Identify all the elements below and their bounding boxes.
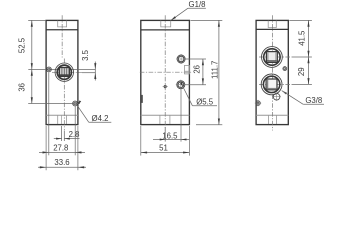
right view cap bottom line xyxy=(256,28,288,30)
right view vertical centerline xyxy=(271,15,273,130)
dim line 26 xyxy=(202,59,204,85)
G1/8 underline xyxy=(188,7,206,9)
middle view base notch xyxy=(160,115,170,124)
dim line 2.8 xyxy=(54,138,62,140)
port circle P left view thread ring xyxy=(57,65,71,79)
arrow 51 left xyxy=(141,151,147,153)
mirrored hole cross ticks xyxy=(272,96,281,98)
small hole left edge bottom xyxy=(256,101,261,106)
port P2 outer circle xyxy=(261,74,282,95)
svg-text:27.8: 27.8 xyxy=(53,143,68,152)
arrow 3.5 upper (outside) xyxy=(94,63,96,69)
right view base notch xyxy=(269,115,277,124)
middle view small center mark xyxy=(164,86,166,88)
ext line body left xyxy=(45,126,47,170)
ext line mid right xyxy=(188,126,190,156)
leader line G3/8 xyxy=(282,91,304,105)
port P1 square bottom band xyxy=(267,60,277,62)
arrow 33.6 left (outside) xyxy=(40,166,46,168)
left view base notch xyxy=(58,115,67,124)
G1/8 leader arrow xyxy=(171,16,176,20)
arrow 2.8 left (outside) xyxy=(56,138,62,140)
dim line 16.5 xyxy=(153,139,189,141)
port P1 square left band xyxy=(267,52,269,61)
dim line 52.5/36 xyxy=(31,20,33,103)
ext line top right view xyxy=(289,19,312,21)
port P1 square right shade xyxy=(275,52,277,61)
arrow 41.5 bottom xyxy=(307,51,309,57)
svg-text:G3/8: G3/8 xyxy=(305,96,322,105)
pilot hole lower cross ticks xyxy=(176,84,186,86)
middle view base strip top line xyxy=(141,114,190,116)
left view base strip top line xyxy=(46,114,78,116)
ext line 26 top xyxy=(185,58,206,60)
right view cap top notch xyxy=(268,21,276,28)
svg-text:51: 51 xyxy=(159,143,168,152)
arrow 29 bottom xyxy=(307,78,309,84)
middle view body outline xyxy=(141,20,190,124)
ext line top left xyxy=(28,19,46,21)
mounting hole lower-right diam 4.2 xyxy=(73,101,78,106)
svg-text:26: 26 xyxy=(193,65,202,74)
dim line 41.5/29 xyxy=(308,20,310,84)
ext line P2 right xyxy=(292,83,312,85)
arrow 3.5 lower (outside) xyxy=(94,73,96,79)
ext line 26 bottom xyxy=(185,84,207,86)
dim line 27.8 xyxy=(39,151,85,153)
mirrored hole 4.2 with cross xyxy=(273,93,280,100)
port square hatch lines xyxy=(61,68,63,74)
arrow 26 bottom xyxy=(202,78,204,84)
svg-text:41.5: 41.5 xyxy=(298,30,307,46)
ext line hole2 xyxy=(74,106,76,155)
dim line 51 xyxy=(141,152,190,154)
arrow 2.8 right (outside) xyxy=(64,138,70,140)
port P2 inner square xyxy=(266,79,277,90)
port circle P left view outer xyxy=(55,63,73,81)
middle view tab mid line xyxy=(185,70,190,72)
left view base notch inner line xyxy=(61,115,63,124)
port P2 thread ring xyxy=(263,76,279,92)
left view centerline main (port axis) xyxy=(63,59,65,131)
mounting hole upper-left (2.8 offset) xyxy=(47,67,52,72)
leader arrow 4.2 xyxy=(77,100,81,105)
ext line bottom 111.7 xyxy=(196,124,222,126)
arrow 36 top xyxy=(31,69,33,75)
leader line 4.2 xyxy=(77,105,89,122)
ext line hole1 xyxy=(48,72,50,155)
arrow 16.5 right (outside) xyxy=(181,139,187,141)
right view base strip top line xyxy=(256,114,288,116)
middle view right edge port tab xyxy=(185,65,190,74)
arrow 51 right xyxy=(183,151,189,153)
arrow 111.7 top xyxy=(218,20,220,26)
port P2 horizontal centerline xyxy=(259,83,292,85)
arrow 52.5 top xyxy=(31,20,33,26)
dim line 111.7 xyxy=(218,20,220,124)
port circle P left view inner square xyxy=(59,68,69,77)
middle view cap bottom line xyxy=(141,29,190,31)
ext line 103.5 left xyxy=(28,103,65,105)
ext line body right xyxy=(77,126,79,170)
arrow 16.5 left (outside) xyxy=(160,139,166,141)
port P2 square bottom shade xyxy=(267,87,277,89)
svg-text:Ø4.2: Ø4.2 xyxy=(92,114,109,123)
small hole right edge xyxy=(283,67,287,71)
left view port horizontal centerline xyxy=(52,72,82,74)
leader arrow G3/8 xyxy=(282,91,287,95)
left view cap bottom line xyxy=(46,29,78,31)
svg-text:36: 36 xyxy=(18,83,27,92)
svg-text:29: 29 xyxy=(297,67,306,76)
dim line 3.5 xyxy=(94,62,96,81)
middle view vertical centerline xyxy=(164,15,166,130)
port P1 outer circle xyxy=(262,47,283,68)
pilot hole upper (side) xyxy=(177,55,185,63)
arrow 41.5 top xyxy=(307,20,309,26)
svg-text:3.5: 3.5 xyxy=(81,49,90,61)
ext line centerline below xyxy=(164,127,166,142)
ext line top 111.7 xyxy=(191,19,223,21)
svg-text:16.5: 16.5 xyxy=(162,131,178,140)
port P1 inner square xyxy=(266,52,277,63)
middle view left edge clip bar xyxy=(141,95,143,103)
port P1 horizontal centerline xyxy=(259,56,292,58)
G1/8 leader line xyxy=(172,8,189,20)
ext line P1 right xyxy=(292,56,312,58)
arrow 27.8 left (outside) xyxy=(43,151,49,153)
leader line 5.5 xyxy=(183,88,192,106)
svg-text:Ø5.5: Ø5.5 xyxy=(196,97,214,106)
port square bottom band xyxy=(60,74,69,76)
ext lines 2.8 xyxy=(61,126,63,141)
pilot hole upper cross ticks xyxy=(176,58,186,60)
ext line mid left xyxy=(140,126,142,156)
arrow 29 top xyxy=(307,57,309,63)
left view cap top port notch xyxy=(58,21,67,27)
right view body outline xyxy=(256,20,288,124)
arrow 111.7 bottom xyxy=(218,119,220,125)
arrow 27.8 right (outside) xyxy=(75,151,81,153)
leader arrow 5.5 xyxy=(180,82,183,87)
middle view horizontal centerline xyxy=(140,71,193,73)
svg-text:52.5: 52.5 xyxy=(18,37,27,53)
ext line hole 5.5 below xyxy=(180,89,182,142)
arrow 33.6 right (outside) xyxy=(78,166,84,168)
dim line 33.6 xyxy=(38,166,86,168)
middle view G1/8 top port notch xyxy=(161,21,171,27)
arrow 36 bottom xyxy=(31,97,33,103)
left view horizontal line through mounting hole (52.5/36 datum) xyxy=(28,68,95,70)
port P1 thread ring xyxy=(264,49,280,65)
arrow 26 top xyxy=(202,59,204,65)
extension line through hole 4.2 xyxy=(65,103,80,105)
arrow 52.5 bottom xyxy=(31,63,33,69)
small hole left edge ticks xyxy=(255,102,261,104)
left view centerline top (cap axis) xyxy=(61,15,63,57)
left view body outline xyxy=(46,20,78,124)
svg-text:33.6: 33.6 xyxy=(54,158,69,167)
svg-text:G1/8: G1/8 xyxy=(189,0,206,9)
svg-text:111.7: 111.7 xyxy=(210,61,219,79)
port P2 square left band xyxy=(267,80,269,89)
pilot hole lower diam 5.5 (side) xyxy=(177,81,185,89)
